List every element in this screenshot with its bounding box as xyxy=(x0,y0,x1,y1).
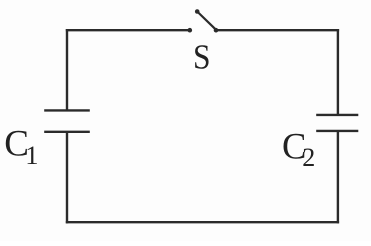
wire bottom xyxy=(66,221,339,223)
wire left side upper xyxy=(66,29,68,110)
svg-text:2: 2 xyxy=(302,143,315,172)
capacitor C1 top plate xyxy=(44,109,90,111)
switch S open throw dot xyxy=(195,9,200,14)
wire left side lower xyxy=(66,132,68,224)
svg-text:1: 1 xyxy=(25,140,38,170)
wire top-left segment xyxy=(66,29,188,31)
svg-text:S: S xyxy=(193,38,211,77)
wire right side lower xyxy=(337,131,339,224)
wire top-right segment xyxy=(216,29,339,31)
capacitor C1 bottom plate xyxy=(44,131,90,133)
switch S pivot dot xyxy=(214,28,219,33)
capacitor C2 bottom plate xyxy=(316,130,358,132)
switch S left contact dot xyxy=(188,28,193,33)
capacitor C2 top plate xyxy=(316,114,358,116)
wire right side upper xyxy=(337,29,339,115)
switch S lever arm xyxy=(197,12,216,30)
